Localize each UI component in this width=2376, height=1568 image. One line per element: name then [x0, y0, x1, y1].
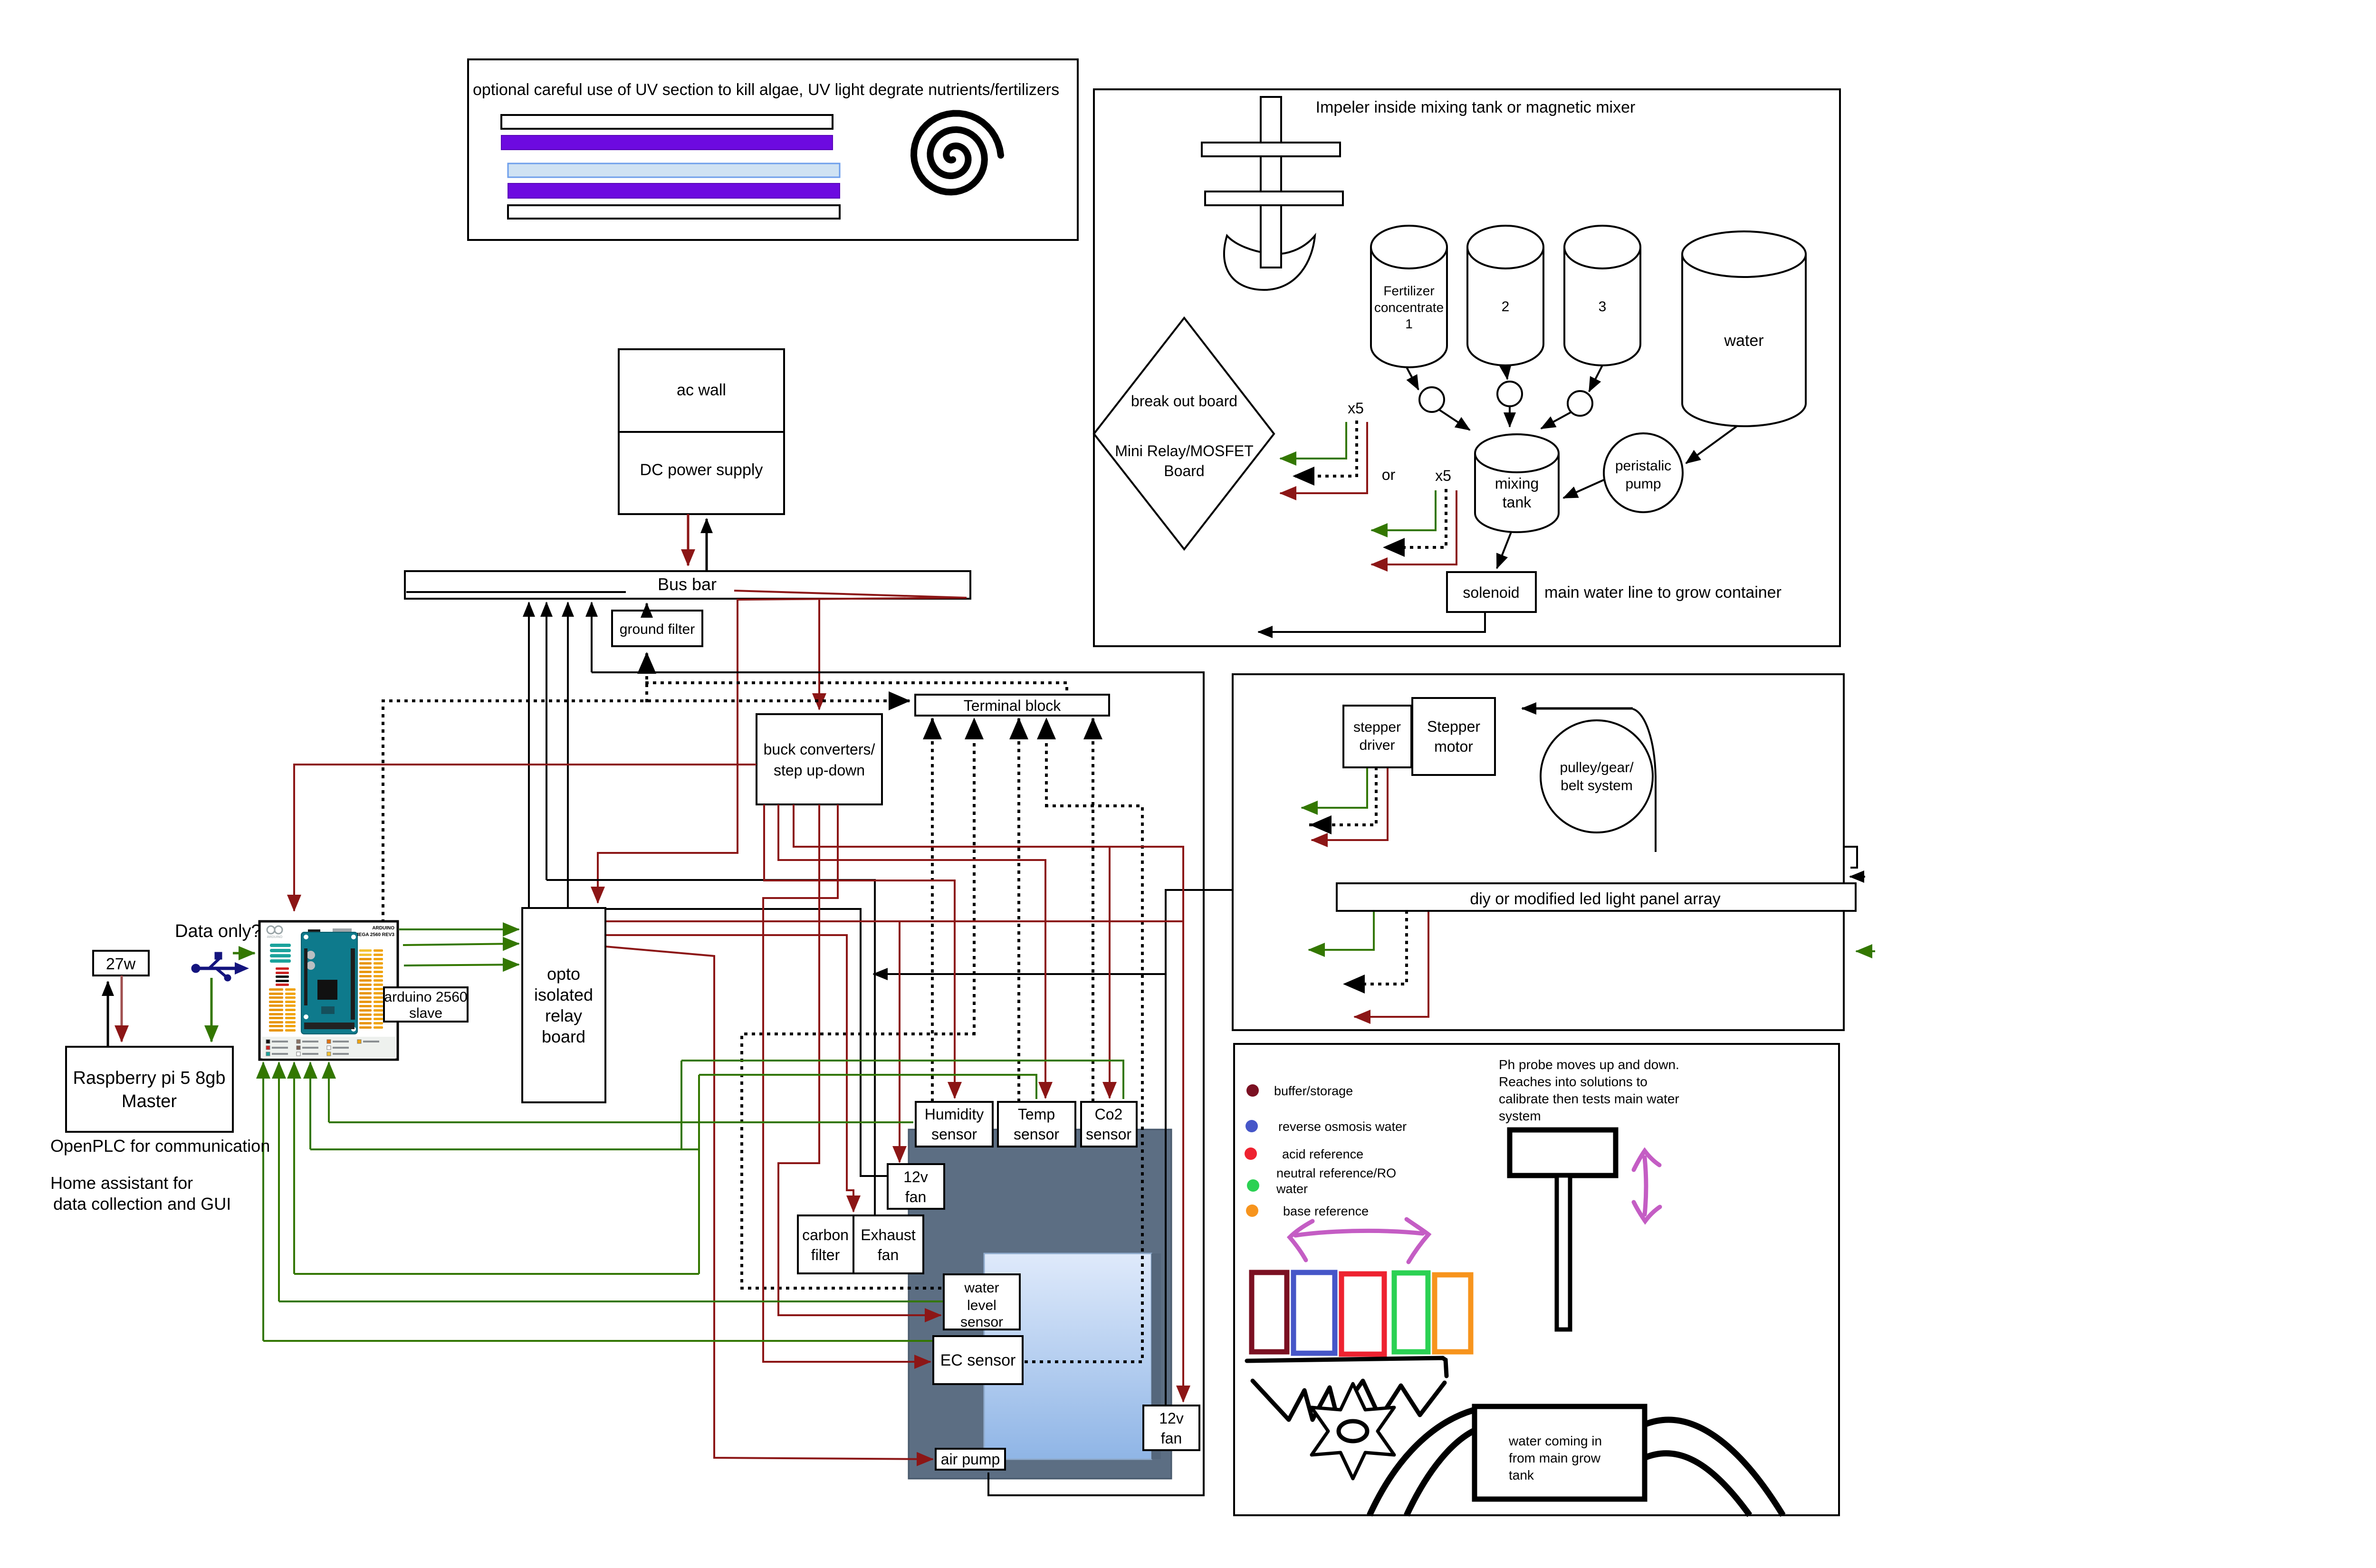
EC sensor box [933, 1336, 1023, 1384]
svg-text:solenoid: solenoid [1463, 584, 1519, 601]
svg-text:belt system: belt system [1561, 778, 1633, 794]
led green arrow [1309, 912, 1374, 950]
svg-text:1: 1 [1405, 316, 1413, 331]
svg-text:neutral reference/RO: neutral reference/RO [1276, 1166, 1396, 1180]
svg-text:x5: x5 [1348, 400, 1364, 417]
svg-text:Bus bar: Bus bar [658, 574, 717, 594]
opto isolated relay board [522, 908, 605, 1102]
svg-text:slave: slave [409, 1005, 442, 1021]
dotted humidity sensor to terminal block [931, 718, 934, 1100]
27w box [93, 951, 149, 975]
12v fan bottom box [1143, 1405, 1199, 1450]
svg-text:acid reference: acid reference [1282, 1147, 1363, 1161]
green bridge upper leg [310, 1148, 699, 1150]
UV lamp bar 5 (white) [508, 205, 840, 219]
fertilizer concentrate 1 cylinder [1371, 247, 1447, 367]
svg-text:or: or [1382, 466, 1396, 483]
x5 set1 dotted arrow [1293, 422, 1357, 476]
svg-text:arduino 2560: arduino 2560 [384, 989, 467, 1005]
svg-text:EC sensor: EC sensor [940, 1351, 1016, 1369]
Raspberry pi box [66, 1047, 233, 1132]
arduino 2560 slave label [384, 987, 468, 1022]
arrow pump to mixing tank [1563, 480, 1604, 498]
green bridge vertical [698, 1075, 700, 1274]
solution cup RO water [1293, 1272, 1335, 1353]
svg-text:optional careful use of UV sec: optional careful use of UV section to ki… [473, 81, 1059, 99]
svg-text:Ph probe moves up and down.: Ph probe moves up and down. [1499, 1057, 1679, 1072]
maroon opto out 1 [605, 920, 1183, 922]
water cylinder [1682, 254, 1806, 426]
svg-text:2: 2 [1502, 299, 1510, 315]
peristaltic pump circle [1604, 433, 1683, 512]
svg-text:filter: filter [811, 1246, 840, 1263]
svg-text:Fertilizer: Fertilizer [1383, 284, 1434, 298]
bus bar inner line [406, 591, 626, 593]
svg-text:OpenPLC for communication: OpenPLC for communication [50, 1136, 270, 1156]
ac wall / DC power supply box [619, 349, 784, 514]
svg-text:system: system [1499, 1109, 1541, 1123]
dotted to water level sensor [742, 1034, 974, 1288]
green to temp sensor [699, 1075, 1036, 1099]
pulley circle [1541, 720, 1653, 832]
svg-text:3: 3 [1599, 299, 1607, 315]
solenoid box [1447, 572, 1536, 612]
dotted ground filter to terminal block top [647, 683, 1067, 693]
USB icon [192, 952, 249, 981]
svg-text:peristalic: peristalic [1615, 458, 1671, 474]
dotted temp sensor to terminal block [1017, 718, 1020, 1100]
svg-text:pump: pump [1625, 476, 1661, 492]
maroon buck to 12v fan bottom [794, 804, 1183, 1402]
svg-text:fan: fan [878, 1246, 899, 1263]
svg-text:MEGA 2560 REV3: MEGA 2560 REV3 [354, 932, 394, 937]
arrow valve3 to tank [1541, 412, 1571, 429]
svg-text:board: board [542, 1027, 585, 1046]
svg-text:tank: tank [1509, 1468, 1534, 1482]
svg-text:data collection and GUI: data collection and GUI [53, 1194, 231, 1214]
black arrow raspberry to 27w [107, 982, 109, 1047]
dotted into ground filter [645, 653, 648, 701]
svg-text:Home assistant for: Home assistant for [50, 1173, 193, 1193]
UV lamp bar 4 (purple) [508, 183, 840, 198]
stepper maroon arrow [1312, 768, 1388, 840]
svg-text:water coming in: water coming in [1508, 1434, 1602, 1448]
svg-text:Raspberry pi 5 8gb: Raspberry pi 5 8gb [73, 1068, 225, 1088]
green up into arduino pin1 [262, 1062, 264, 1341]
svg-text:air pump: air pump [941, 1451, 1000, 1468]
black wire stepper box to 12v fan bottom [1166, 890, 1234, 1405]
arrow fert2 to valve [1505, 365, 1507, 379]
water coming in box [1475, 1406, 1645, 1499]
maroon branch to 12v fan left [899, 921, 901, 1162]
svg-text:ac wall: ac wall [677, 381, 726, 399]
maroon opto to carbon filter [605, 935, 853, 1212]
fertilizer 3 cylinder [1564, 247, 1640, 365]
green to co2 sensor [681, 1061, 1123, 1099]
Bus bar [405, 571, 970, 599]
bus bar maroon tap upper [734, 591, 967, 598]
green arrow into box right edge [1856, 950, 1875, 952]
maroon bus to opto relay board [598, 598, 967, 903]
svg-text:Co2: Co2 [1095, 1106, 1123, 1123]
svg-text:12v: 12v [903, 1168, 928, 1186]
led dotted arrow [1344, 912, 1407, 984]
Humidity sensor box [916, 1102, 993, 1147]
green to humidity sensor [329, 1121, 913, 1123]
divider ac/dc [619, 431, 784, 433]
belt curve [1633, 709, 1656, 852]
svg-text:x5: x5 [1435, 467, 1451, 484]
maroon buck left to arduino [294, 765, 757, 911]
maroon bus bar to buck converters [818, 600, 820, 709]
svg-text:driver: driver [1359, 737, 1395, 753]
svg-text:ARDUINO: ARDUINO [267, 936, 283, 939]
svg-text:Reaches into solutions to: Reaches into solutions to [1499, 1074, 1648, 1089]
x5 set2 green arrow [1371, 490, 1436, 530]
black wire bus to exhaust fan [546, 880, 875, 1214]
svg-text:27w: 27w [106, 955, 136, 973]
air pump box [936, 1449, 1005, 1470]
stepper green arrow [1302, 768, 1367, 808]
stepper driver box [1343, 706, 1411, 767]
x5 set2 maroon arrow [1371, 490, 1456, 564]
dotted arduino to terminal block [383, 701, 910, 921]
arrow fert3 to valve [1589, 365, 1602, 392]
legend dot reverse osmosis water [1245, 1120, 1258, 1132]
green arduino to opto 1 [399, 928, 519, 930]
solution cup base [1435, 1275, 1471, 1352]
tray line [1247, 1358, 1447, 1376]
svg-text:Humidity: Humidity [925, 1106, 984, 1123]
Exhaust fan box [853, 1215, 923, 1273]
stepper and led panel box [1233, 674, 1844, 1030]
green wire to water level sensor [279, 1300, 943, 1302]
valve circle 1 [1419, 387, 1444, 412]
pH calibration box [1234, 1044, 1839, 1515]
svg-text:Mini Relay/MOSFET: Mini Relay/MOSFET [1115, 442, 1254, 459]
ph probe head [1510, 1130, 1616, 1176]
svg-text:break out board: break out board [1131, 392, 1237, 410]
black wire opto to bus bar 1 [528, 602, 530, 908]
zigzag line [1253, 1381, 1445, 1420]
valve circle 2 [1497, 382, 1522, 406]
svg-text:Exhaust: Exhaust [861, 1226, 916, 1243]
svg-text:sensor: sensor [931, 1126, 977, 1143]
svg-text:opto: opto [547, 964, 580, 984]
svg-text:buffer/storage: buffer/storage [1274, 1084, 1353, 1098]
svg-text:fan: fan [1161, 1430, 1182, 1447]
mixing tank cylinder [1475, 453, 1559, 532]
svg-text:Temp: Temp [1018, 1106, 1055, 1123]
svg-text:buck converters/: buck converters/ [764, 741, 875, 758]
svg-text:Terminal block: Terminal block [964, 697, 1062, 714]
svg-text:water: water [964, 1280, 999, 1296]
container inner shade right [1151, 1253, 1161, 1459]
svg-text:main water line to grow contai: main water line to grow container [1544, 583, 1782, 602]
led maroon arrow [1354, 912, 1428, 1017]
green arduino to opto 3 [404, 965, 519, 966]
svg-text:ARDUINO: ARDUINO [372, 926, 394, 931]
Terminal block [915, 695, 1109, 716]
stepper dotted arrow [1311, 768, 1376, 825]
UV section box [468, 59, 1078, 240]
legend dot acid reference [1245, 1147, 1257, 1160]
water pipes arcs [1370, 1410, 1473, 1515]
maroon branch to co2 sensor [1109, 847, 1111, 1098]
green usb to arduino [233, 952, 255, 955]
maroon buck to temp sensor [778, 804, 1045, 1098]
green up into arduino pin4 [309, 1062, 311, 1149]
maroon opto to air pump [605, 947, 933, 1459]
svg-text:tank: tank [1503, 494, 1532, 511]
solution cup acid [1341, 1274, 1384, 1354]
Stepper motor box [1412, 698, 1495, 775]
grow container inner water [984, 1253, 1151, 1459]
svg-text:base reference: base reference [1283, 1204, 1369, 1218]
led panel bar [1337, 883, 1856, 911]
legend dot buffer/storage [1246, 1084, 1259, 1097]
buck converters box [757, 714, 882, 804]
green wire to EC sensor [263, 1340, 932, 1342]
UV lamp bar 1 (white) [501, 115, 833, 129]
green usb down to raspberry [211, 978, 213, 1042]
carbon filter box [798, 1215, 853, 1273]
maroon arrow 27w to raspberry [121, 975, 123, 1042]
dotted EC to terminal block (up arrow) [1045, 718, 1048, 806]
water level sensor box [944, 1274, 1020, 1329]
main water line arrow left [1258, 612, 1485, 632]
black wire bus around container to air pump [592, 672, 1204, 1495]
magenta horizontal double arrow [1290, 1219, 1428, 1262]
solution cup buffer [1252, 1272, 1287, 1352]
x5 set1 maroon arrow [1280, 422, 1367, 493]
arrow fert1 to valve [1407, 367, 1418, 390]
black wire to bus bar 3 (up arrow) [567, 602, 569, 909]
green riser to co2 [680, 1061, 682, 1149]
svg-text:sensor: sensor [960, 1314, 1003, 1330]
impeller bar 2 [1205, 191, 1343, 205]
svg-text:Data only?: Data only? [175, 921, 261, 941]
legend dot base reference [1246, 1205, 1258, 1217]
maroon buck to water level sensor [778, 804, 941, 1315]
wire DC to bus bar (maroon down) [687, 514, 690, 565]
svg-text:water: water [1724, 332, 1763, 350]
solution cup neutral [1394, 1273, 1428, 1352]
green up into arduino pin3 [293, 1062, 295, 1274]
magenta vertical double arrow [1634, 1151, 1660, 1221]
black wire branch with left arrow [873, 973, 1166, 975]
UV lamp bar 2 (purple) [501, 135, 833, 150]
impeller crescent [1224, 236, 1315, 290]
svg-text:mixing: mixing [1495, 475, 1539, 492]
svg-text:relay: relay [545, 1006, 582, 1025]
svg-text:Master: Master [122, 1091, 177, 1111]
Temp sensor box [998, 1102, 1075, 1147]
svg-text:Board: Board [1164, 462, 1204, 479]
grow container outer [909, 1129, 1171, 1479]
svg-text:diy or modified led light pane: diy or modified led light panel array [1470, 890, 1720, 908]
impeller bar 1 [1202, 143, 1340, 156]
svg-text:reverse osmosis water: reverse osmosis water [1278, 1119, 1407, 1134]
x5 set1 green arrow [1280, 422, 1346, 459]
star glyph [1312, 1384, 1394, 1479]
arrow from belt to left [1522, 708, 1633, 710]
svg-text:fan: fan [905, 1188, 926, 1205]
led bar right notch [1844, 847, 1857, 868]
svg-text:level: level [967, 1298, 996, 1313]
dotted terminal block arrow 2 [973, 718, 976, 1034]
dotted EC sensor run [1025, 806, 1142, 1362]
dotted co2 sensor to terminal block [1092, 718, 1094, 1100]
green bridge lower leg [294, 1273, 699, 1275]
svg-text:pulley/gear/: pulley/gear/ [1560, 760, 1634, 775]
svg-text:isolated: isolated [534, 985, 593, 1004]
UV lamp bar 3 (light blue water) [508, 163, 840, 177]
arrow water to pump [1686, 426, 1737, 463]
black wire to bus bar 4 (up arrow) [591, 602, 593, 672]
UV spiral glyph [914, 114, 1001, 192]
black wire to bus bar 2 (up arrow) [546, 602, 547, 880]
svg-text:12v: 12v [1159, 1410, 1184, 1427]
svg-text:Stepper: Stepper [1427, 718, 1480, 735]
break out board diamond [1094, 318, 1274, 549]
green up into arduino pin2 [278, 1062, 280, 1301]
maroon buck to EC sensor [763, 804, 930, 1362]
svg-text:Impeler inside mixing tank or: Impeler inside mixing tank or magnetic m… [1316, 98, 1636, 116]
x5 set2 dotted arrow [1384, 490, 1446, 547]
wire bus bar to DC (black up) [706, 519, 708, 570]
arrow valve1 to tank [1439, 410, 1470, 430]
impeller mixing box [1094, 89, 1840, 646]
maroon buck to humidity sensor [764, 804, 955, 1098]
svg-text:carbon: carbon [802, 1226, 849, 1243]
svg-text:step up-down: step up-down [774, 762, 865, 779]
Co2 sensor box [1081, 1102, 1137, 1147]
arrow mixing tank to solenoid [1497, 532, 1511, 568]
svg-text:ground filter: ground filter [620, 621, 695, 637]
svg-text:sensor: sensor [1086, 1126, 1131, 1143]
ground filter to bus arrow [646, 603, 648, 610]
valve circle 3 [1568, 391, 1592, 416]
12v fan left box [888, 1164, 944, 1209]
svg-text:from main grow: from main grow [1509, 1451, 1601, 1465]
legend dot neutral reference/RO [1247, 1179, 1259, 1192]
impeller shaft [1261, 97, 1281, 268]
green up into arduino pin5 [328, 1062, 330, 1122]
svg-text:calibrate then tests main wate: calibrate then tests main water [1499, 1091, 1679, 1106]
svg-text:motor: motor [1434, 738, 1473, 755]
arrow valve2 to tank [1509, 406, 1511, 427]
svg-text:stepper: stepper [1353, 719, 1401, 735]
svg-text:DC power supply: DC power supply [640, 461, 763, 479]
ground filter box [612, 611, 702, 646]
ph probe stem [1557, 1176, 1570, 1329]
arduino mega 2560 board image [259, 921, 398, 1060]
green arduino to opto 2 [403, 944, 519, 945]
svg-text:water: water [1276, 1182, 1308, 1196]
fertilizer 2 cylinder [1467, 247, 1543, 365]
black wire bus to 12v fan left [568, 909, 887, 1176]
svg-text:concentrate: concentrate [1374, 300, 1444, 315]
svg-text:sensor: sensor [1014, 1126, 1059, 1143]
